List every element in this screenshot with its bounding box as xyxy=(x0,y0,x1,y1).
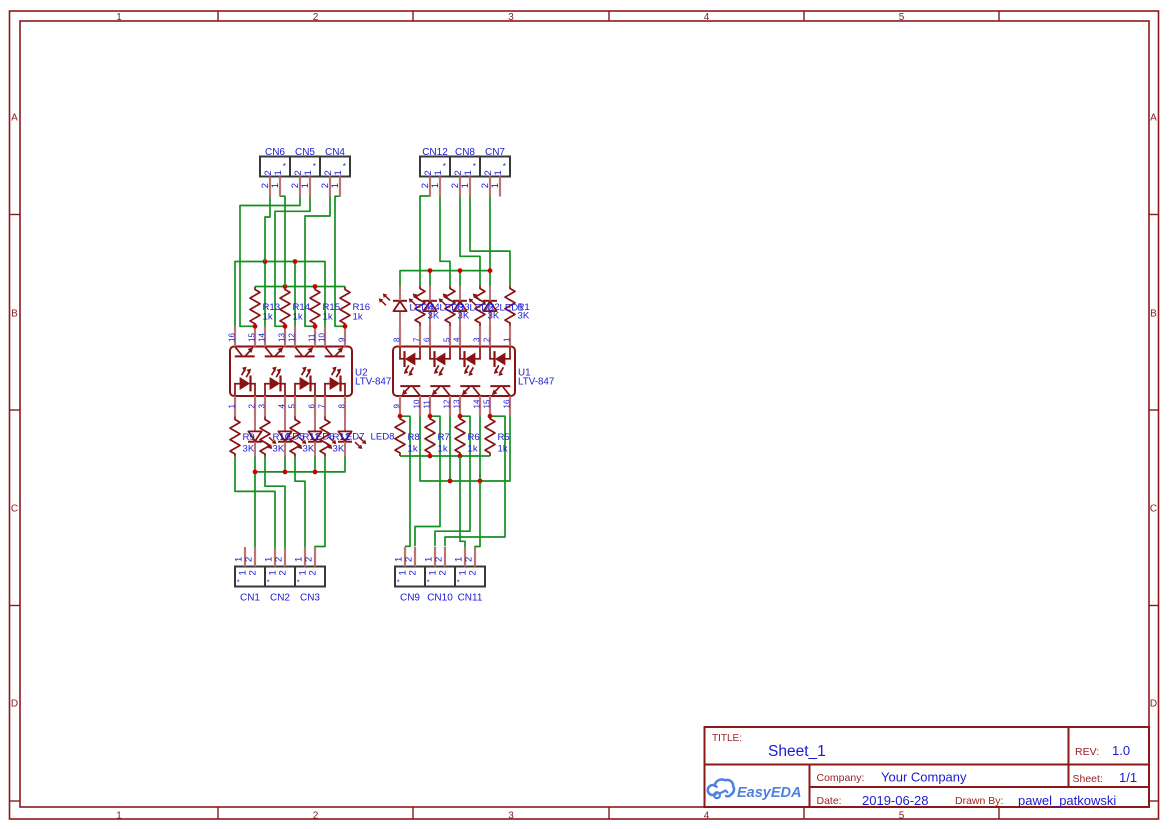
svg-text:5: 5 xyxy=(442,337,451,342)
svg-text:2: 2 xyxy=(434,557,445,562)
svg-text:1: 1 xyxy=(116,12,122,23)
connector CN2 xyxy=(264,547,295,604)
LED LED5 body xyxy=(248,417,276,457)
svg-text:CN7: CN7 xyxy=(485,147,505,158)
svg-text:Sheet:: Sheet: xyxy=(1073,773,1103,785)
wire bus G resistor bottoms xyxy=(400,455,490,457)
label LED4 xyxy=(410,302,435,313)
svg-text:3K: 3K xyxy=(333,443,345,454)
wire U2 pin12 to bus A xyxy=(294,262,296,327)
svg-text:2: 2 xyxy=(408,570,419,575)
wire R3 to CN12.1 xyxy=(440,195,450,286)
connector CN1 xyxy=(234,547,265,604)
label U1 pin 7 xyxy=(412,337,421,342)
svg-text:8: 8 xyxy=(337,404,346,409)
svg-text:CN3: CN3 xyxy=(300,593,320,604)
svg-text:16: 16 xyxy=(502,399,511,408)
svg-text:Sheet_1: Sheet_1 xyxy=(768,743,826,760)
svg-text:Drawn By:: Drawn By: xyxy=(955,795,1003,807)
node R13/pin15 xyxy=(253,324,258,329)
wire R9 to CN2.1 xyxy=(235,457,275,548)
wire bus F to CN11.2 xyxy=(475,482,480,548)
node R8/pin9 xyxy=(398,414,403,419)
node bus G / R7 xyxy=(428,454,433,459)
resistor R2 body xyxy=(475,286,485,326)
svg-text:*: * xyxy=(457,578,460,587)
svg-text:R5: R5 xyxy=(498,432,510,443)
node R14/pin13 xyxy=(283,324,288,329)
svg-text:5: 5 xyxy=(899,12,905,23)
node bus B / R15 xyxy=(313,284,318,289)
label LED5 xyxy=(281,432,305,443)
label U1 pin 1 xyxy=(502,337,511,342)
wire CN6.2 to bus A xyxy=(265,196,270,261)
resistor R10 body xyxy=(260,417,270,457)
svg-text:13: 13 xyxy=(277,333,286,342)
label R14 1k xyxy=(293,302,311,322)
label U1 pin 14 xyxy=(472,399,481,408)
wire CN5.1 to R14/pin13 xyxy=(275,196,310,326)
svg-text:*: * xyxy=(283,162,286,171)
svg-text:2: 2 xyxy=(308,570,319,575)
svg-text:1: 1 xyxy=(270,183,281,188)
svg-text:D: D xyxy=(1150,699,1157,710)
svg-text:CN5: CN5 xyxy=(295,147,315,158)
svg-text:1: 1 xyxy=(227,404,236,409)
svg-text:1: 1 xyxy=(430,183,441,188)
node bus A / U2 pin14 xyxy=(263,259,268,264)
svg-text:Date:: Date: xyxy=(817,795,842,807)
svg-text:Company:: Company: xyxy=(817,772,865,784)
node bus C / LED5 xyxy=(253,470,258,475)
wire CN5.2 to R13/pin15 xyxy=(240,196,300,326)
wire CN4.2 to R15/pin11 xyxy=(305,196,330,326)
svg-text:B: B xyxy=(1150,309,1157,320)
title block frame xyxy=(705,727,1150,807)
resistor R6 body xyxy=(425,416,435,456)
svg-text:2: 2 xyxy=(247,404,256,409)
wire LED1 to CN7.2 xyxy=(489,195,491,286)
svg-text:2: 2 xyxy=(278,570,289,575)
svg-text:4: 4 xyxy=(452,337,461,342)
wire R12 to CN3.2 xyxy=(315,457,325,548)
label U1 pin 16 xyxy=(502,399,511,408)
svg-text:2: 2 xyxy=(464,557,475,562)
label R11 3K xyxy=(303,432,320,454)
label U1 pin 4 xyxy=(452,337,461,342)
ruler letters right xyxy=(1150,113,1157,710)
label U2 pin 11 xyxy=(307,333,316,342)
svg-text:1: 1 xyxy=(330,183,341,188)
LED LED2 body xyxy=(439,286,467,326)
svg-text:9: 9 xyxy=(337,337,346,342)
wire U1 pin12 to bus F xyxy=(449,416,451,481)
svg-text:6: 6 xyxy=(422,337,431,342)
LED LED1 body xyxy=(469,286,497,326)
label R8 1k xyxy=(408,432,420,454)
wire R11 to CN3.1 xyxy=(295,457,305,548)
svg-text:2: 2 xyxy=(313,811,319,822)
svg-text:D: D xyxy=(11,699,18,710)
svg-text:3: 3 xyxy=(472,337,481,342)
resistor R4 body xyxy=(415,286,425,326)
svg-text:15: 15 xyxy=(247,333,256,342)
svg-text:4: 4 xyxy=(704,12,710,23)
svg-text:1: 1 xyxy=(490,183,501,188)
svg-text:1: 1 xyxy=(116,811,122,822)
label U1 pin 8 xyxy=(392,337,401,342)
node bus D / LED2 xyxy=(458,268,463,273)
label U1 pin 6 xyxy=(422,337,431,342)
svg-text:14: 14 xyxy=(472,399,481,408)
node R7/pin11 xyxy=(428,414,433,419)
wire CN10.1 to R6/pin13 xyxy=(435,416,470,546)
svg-text:CN11: CN11 xyxy=(458,593,483,604)
svg-text:14: 14 xyxy=(257,333,266,342)
svg-text:*: * xyxy=(297,578,300,587)
svg-text:4: 4 xyxy=(277,404,286,409)
ruler ticks left/right xyxy=(10,215,1159,802)
svg-text:*: * xyxy=(237,578,240,587)
connector CN9 xyxy=(394,547,425,604)
label R15 1k xyxy=(323,302,341,322)
svg-text:*: * xyxy=(397,578,400,587)
wire CN10.2 to R5/pin15 xyxy=(445,416,505,546)
svg-text:C: C xyxy=(11,504,18,515)
svg-text:1/1: 1/1 xyxy=(1119,770,1137,785)
svg-text:1k: 1k xyxy=(293,311,303,322)
svg-text:1k: 1k xyxy=(498,443,508,454)
optocoupler U2 LTV-847 xyxy=(230,327,352,417)
wire bus D led anodes xyxy=(400,271,490,286)
svg-text:*: * xyxy=(443,162,446,171)
wire LED6 to bus C xyxy=(284,457,286,472)
wire R10 to CN2.2 xyxy=(265,457,285,548)
label R10 3K xyxy=(273,432,291,454)
label U1 pin 10 xyxy=(412,399,421,408)
svg-text:LED8: LED8 xyxy=(371,432,395,443)
label U1 pin 5 xyxy=(442,337,451,342)
svg-text:CN6: CN6 xyxy=(265,147,285,158)
optocoupler U1 LTV-847 xyxy=(393,326,515,416)
node bus D / LED1 xyxy=(488,268,493,273)
title text xyxy=(712,733,826,760)
wire U1 pin14 to bus F xyxy=(479,416,481,481)
svg-text:2: 2 xyxy=(304,557,315,562)
svg-text:2: 2 xyxy=(244,557,255,562)
wire R1 to CN8.1 xyxy=(470,195,510,286)
wire bus B resistor tops xyxy=(255,286,345,288)
wire CN6.1 to bus B xyxy=(280,196,285,286)
svg-text:*: * xyxy=(313,162,316,171)
svg-text:3: 3 xyxy=(257,404,266,409)
node bus G / R6 xyxy=(458,454,463,459)
svg-text:2: 2 xyxy=(248,570,259,575)
label U2 pin 4 xyxy=(277,404,286,409)
label R9 3K xyxy=(243,432,255,454)
label U1 pin 9 xyxy=(392,404,401,409)
connector CN7 xyxy=(480,147,510,197)
svg-text:*: * xyxy=(267,578,270,587)
svg-text:Your Company: Your Company xyxy=(881,770,967,785)
label U2 pin 7 xyxy=(317,404,326,409)
svg-text:CN1: CN1 xyxy=(240,593,260,604)
node R6/pin13 xyxy=(458,414,463,419)
label R3 3K xyxy=(458,302,470,322)
wire CN4.1 to R16/pin9 xyxy=(335,196,345,326)
svg-text:LED4: LED4 xyxy=(410,302,435,313)
wire R4 to CN12.2 xyxy=(420,195,430,286)
label U2 pin 2 xyxy=(247,404,256,409)
node R5/pin15 xyxy=(488,414,493,419)
svg-text:2: 2 xyxy=(313,12,319,23)
resistor R11 body xyxy=(290,417,300,457)
connector CN4 xyxy=(320,147,350,197)
label LED6 xyxy=(311,432,335,443)
svg-text:TITLE:: TITLE: xyxy=(712,733,742,744)
right half (rotated 180): U1, R1-R8, LED1-LED4 and wiring xyxy=(379,195,515,546)
svg-text:3K: 3K xyxy=(273,443,285,454)
connector CN10 xyxy=(424,547,455,604)
resistor R3 body xyxy=(445,286,455,326)
svg-text:LED7: LED7 xyxy=(341,432,365,443)
connector CN11 xyxy=(454,547,485,604)
connector CN12 xyxy=(420,147,450,197)
resistor R5 body xyxy=(395,416,405,456)
wire bus C led cathodes xyxy=(255,457,345,472)
svg-text:CN2: CN2 xyxy=(270,593,290,604)
svg-text:10: 10 xyxy=(317,333,326,342)
svg-text:EasyEDA: EasyEDA xyxy=(737,785,801,801)
svg-text:10: 10 xyxy=(412,399,421,408)
company row xyxy=(817,770,968,785)
connector CN3 xyxy=(294,547,325,604)
wire bus A collectors U2 xyxy=(235,262,325,327)
wire LED3 to bus D xyxy=(429,271,431,286)
svg-text:2: 2 xyxy=(468,570,479,575)
label R7 1k xyxy=(438,432,450,454)
left half: U2, R9-R16, LED5-LED8 and wiring xyxy=(230,196,366,547)
wire bus F collectors U1 xyxy=(420,416,510,481)
date row xyxy=(817,793,1117,808)
label U2 pin 15 xyxy=(247,333,256,342)
svg-text:*: * xyxy=(473,162,476,171)
label U2 xyxy=(355,367,391,387)
label U1 pin 12 xyxy=(442,399,451,408)
LED LED6 body xyxy=(278,417,306,457)
svg-text:*: * xyxy=(343,162,346,171)
svg-text:11: 11 xyxy=(422,400,431,409)
LED LED4 body xyxy=(379,286,407,326)
svg-text:REV:: REV: xyxy=(1075,746,1099,758)
node bus A / U2 pin12 xyxy=(293,259,298,264)
label U1 pin 13 xyxy=(452,399,461,408)
svg-text:R9: R9 xyxy=(243,432,255,443)
label U2 pin 9 xyxy=(337,337,346,342)
label U2 pin 10 xyxy=(317,333,326,342)
svg-text:1k: 1k xyxy=(438,443,448,454)
svg-text:1: 1 xyxy=(460,183,471,188)
node bus D / LED3 xyxy=(428,268,433,273)
svg-text:12: 12 xyxy=(442,399,451,408)
label U2 pin 3 xyxy=(257,404,266,409)
svg-text:LED3: LED3 xyxy=(440,302,464,313)
svg-text:6: 6 xyxy=(307,404,316,409)
label R12 3K xyxy=(333,432,351,454)
node bus F / U1 pin12 xyxy=(448,479,453,484)
ruler ticks top/bottom xyxy=(218,11,999,819)
svg-text:15: 15 xyxy=(482,399,491,408)
svg-text:A: A xyxy=(1150,113,1157,124)
wire R2 to CN8.2 xyxy=(460,195,480,286)
svg-text:2: 2 xyxy=(482,337,491,342)
connector CN5 xyxy=(290,147,320,197)
LED LED7 body xyxy=(308,417,336,457)
svg-text:1k: 1k xyxy=(323,311,333,322)
svg-text:CN4: CN4 xyxy=(325,147,345,158)
rev text xyxy=(1075,743,1130,758)
svg-text:LED1: LED1 xyxy=(500,302,524,313)
label U2 pin 8 xyxy=(337,404,346,409)
sheet cell xyxy=(1073,770,1138,785)
svg-text:3K: 3K xyxy=(243,443,255,454)
resistor R9 body xyxy=(230,417,240,457)
svg-text:1k: 1k xyxy=(408,443,418,454)
svg-text:R6: R6 xyxy=(468,432,480,443)
label R1 3K xyxy=(518,302,530,322)
label U2 pin 14 xyxy=(257,333,266,342)
svg-text:7: 7 xyxy=(412,337,421,342)
label U1 pin 3 xyxy=(472,337,481,342)
wire CN9.1 to R8/pin9 xyxy=(400,416,410,546)
svg-text:1: 1 xyxy=(300,183,311,188)
svg-text:4: 4 xyxy=(704,811,710,822)
svg-text:8: 8 xyxy=(392,337,401,342)
EasyEDA logo xyxy=(708,779,802,801)
node bus C / LED6 xyxy=(283,470,288,475)
label LED2 xyxy=(470,302,494,313)
label U1 pin 11 xyxy=(422,400,431,409)
label R4 3K xyxy=(428,302,441,322)
wire CN9.2 to R7/pin11 xyxy=(415,416,440,546)
svg-text:CN10: CN10 xyxy=(427,593,453,604)
resistor R1 body xyxy=(505,286,515,326)
connector CN8 xyxy=(450,147,480,197)
wire LED2 to bus D xyxy=(459,271,461,286)
svg-text:1k: 1k xyxy=(353,311,363,322)
svg-text:9: 9 xyxy=(392,404,401,409)
svg-text:3: 3 xyxy=(508,811,514,822)
svg-text:1: 1 xyxy=(502,337,511,342)
label LED7 xyxy=(341,432,365,443)
label R13 1k xyxy=(263,302,281,322)
svg-text:A: A xyxy=(11,113,18,124)
label U2 pin 5 xyxy=(287,404,296,409)
resistor R12 body xyxy=(320,417,330,457)
ruler numbers top xyxy=(116,12,905,23)
label LED3 xyxy=(440,302,464,313)
resistor R13 body xyxy=(250,287,260,327)
node bus B / R14 xyxy=(283,284,288,289)
svg-text:R7: R7 xyxy=(438,432,450,443)
label U1 xyxy=(518,367,554,387)
svg-text:C: C xyxy=(1150,504,1157,515)
svg-text:11: 11 xyxy=(307,333,316,342)
svg-text:B: B xyxy=(11,309,18,320)
label U2 pin 13 xyxy=(277,333,286,342)
svg-text:7: 7 xyxy=(317,404,326,409)
label LED8 xyxy=(371,432,395,443)
resistor R15 body xyxy=(310,287,320,327)
label U2 pin 6 xyxy=(307,404,316,409)
svg-text:LED5: LED5 xyxy=(281,432,305,443)
svg-text:12: 12 xyxy=(287,333,296,342)
wire LED7 to bus C xyxy=(314,457,316,472)
label R2 3K xyxy=(488,302,500,322)
label U1 pin 2 xyxy=(482,337,491,342)
svg-text:*: * xyxy=(427,578,430,587)
svg-text:R8: R8 xyxy=(408,432,420,443)
label R16 1k xyxy=(353,302,371,322)
ruler letters left xyxy=(11,113,18,710)
wire LED5 to CN1.2 xyxy=(254,457,256,548)
svg-text:2019-06-28: 2019-06-28 xyxy=(862,793,929,808)
svg-text:13: 13 xyxy=(452,399,461,408)
svg-text:1.0: 1.0 xyxy=(1112,743,1130,758)
svg-text:3: 3 xyxy=(508,12,514,23)
label U2 pin 12 xyxy=(287,333,296,342)
svg-text:CN12: CN12 xyxy=(422,147,448,158)
svg-text:5: 5 xyxy=(287,404,296,409)
svg-text:16: 16 xyxy=(227,333,236,342)
label R6 1k xyxy=(468,432,480,454)
svg-text:1k: 1k xyxy=(468,443,478,454)
svg-text:*: * xyxy=(503,162,506,171)
resistor R16 body xyxy=(340,287,350,327)
svg-text:CN8: CN8 xyxy=(455,147,475,158)
resistor R8 body xyxy=(485,416,495,456)
LED LED8 body xyxy=(338,417,366,457)
LED LED3 body xyxy=(409,286,437,326)
resistor R7 body xyxy=(455,416,465,456)
wire bus G to CN11.1 xyxy=(460,456,465,547)
resistor R14 body xyxy=(280,287,290,327)
svg-text:2: 2 xyxy=(274,557,285,562)
label U1 pin 15 xyxy=(482,399,491,408)
label U2 pin 1 xyxy=(227,404,236,409)
label LED1 xyxy=(500,302,524,313)
svg-text:2: 2 xyxy=(404,557,415,562)
svg-text:LED6: LED6 xyxy=(311,432,335,443)
node bus C / LED7 xyxy=(313,470,318,475)
node R15/pin11 xyxy=(313,324,318,329)
svg-text:1k: 1k xyxy=(263,311,273,322)
label U2 pin 16 xyxy=(227,333,236,342)
svg-text:LTV-847: LTV-847 xyxy=(518,377,554,388)
svg-text:pawel_patkowski: pawel_patkowski xyxy=(1018,793,1116,808)
svg-text:3K: 3K xyxy=(303,443,315,454)
svg-text:5: 5 xyxy=(899,811,905,822)
label R5 1k xyxy=(498,432,510,454)
node R16/pin9 xyxy=(343,324,348,329)
svg-text:LED2: LED2 xyxy=(470,302,494,313)
ruler numbers bottom xyxy=(116,811,905,822)
connector CN6 xyxy=(260,147,290,197)
svg-text:2: 2 xyxy=(438,570,449,575)
wire U2 pin14 to bus A xyxy=(264,262,266,327)
svg-text:CN9: CN9 xyxy=(400,593,420,604)
svg-text:LTV-847: LTV-847 xyxy=(355,377,391,388)
